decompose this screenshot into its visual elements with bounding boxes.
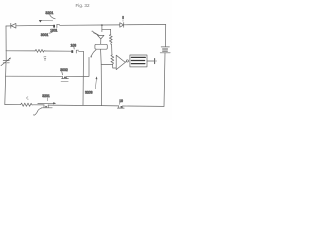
box overcharge detection circuit	[130, 55, 147, 67]
leader tick from 3202	[47, 98, 49, 101]
resistor R2a (row2 horizontal)	[35, 49, 46, 52]
contact blob 1001 (top switch)	[53, 25, 55, 28]
battery plate top	[161, 46, 169, 48]
wire bottom rail center	[48, 104, 118, 107]
box 3204 (empty rounded box)	[95, 44, 107, 49]
wire left rail upper	[5, 26, 7, 60]
terminal stub	[155, 60, 156, 62]
wire box bottom lead down to bottom rail	[100, 49, 103, 105]
bracket of contact 103	[76, 50, 78, 53]
label 5 above diode D2	[122, 16, 124, 19]
bracket of switch 1001	[57, 24, 60, 27]
transistor Q1 (base squiggle)	[92, 31, 95, 33]
box text line 2	[131, 60, 144, 62]
wire bottom rail right	[123, 105, 164, 107]
diode D1 (top-left, pointing left)	[10, 23, 12, 28]
resistor R4 (bottom horizontal)	[20, 103, 33, 106]
wire R3 to op-amp input	[113, 65, 117, 68]
wire right rail lower	[164, 53, 165, 106]
wire branch corner A to B	[102, 28, 111, 30]
wire row3 right + stub up	[67, 57, 89, 76]
current arrow	[38, 102, 54, 104]
switch contact (bottom mesa)	[43, 105, 45, 108]
svg-text:Fig. 32: Fig. 32	[76, 3, 90, 8]
wire top rail right of switch	[60, 24, 120, 26]
wire row3	[6, 75, 63, 77]
leader to box	[92, 50, 97, 56]
svg-text:3201: 3201	[42, 94, 50, 98]
node junction dot on top rail	[101, 24, 103, 26]
resistor R1 (vertical)	[109, 29, 112, 43]
battery label line 2	[163, 50, 168, 52]
wire line A (from top junction down)	[101, 25, 103, 32]
wire row2 left	[6, 50, 35, 52]
battery plate bottom	[160, 52, 170, 54]
variable capacitor plates (left rail)	[3, 60, 9, 62]
label above resistor R4	[27, 97, 29, 99]
leader from 103	[73, 47, 75, 49]
wire top rail mid	[16, 24, 53, 26]
wire right rail upper	[164, 25, 166, 47]
wire top rail far right	[124, 24, 166, 26]
svg-text:3001: 3001	[41, 33, 49, 37]
wire bottom rail left	[5, 104, 20, 106]
tiny leader label	[91, 56, 92, 58]
leader from 3002	[61, 72, 64, 75]
leader from 3001	[49, 30, 54, 33]
contact blob 103	[71, 50, 73, 53]
transistor Q1 emitter stroke	[94, 33, 98, 35]
wire box output	[147, 60, 154, 62]
box text line 3	[131, 63, 145, 65]
variable capacitor arrow	[1, 58, 10, 65]
wire row2 mid	[45, 50, 71, 52]
tiny label (below row2 resistor)	[44, 56, 46, 61]
wire left rail lower	[5, 63, 6, 105]
connector circle	[126, 60, 128, 62]
wire top horizontal rail	[6, 25, 16, 27]
cord tail	[33, 108, 41, 115]
wire op-amp output	[125, 60, 126, 63]
resistor R3 (vertical, at op-amp)	[111, 54, 114, 64]
wire between resistors	[111, 44, 112, 54]
diode D2 (top-right, pointing right)	[120, 23, 124, 28]
leader arrow up from 3203	[95, 79, 96, 89]
terminal bar	[154, 59, 156, 64]
switch 3002 (mesa contact)	[62, 76, 64, 78]
leader from 10	[118, 103, 121, 105]
op-amp U1	[116, 55, 125, 69]
battery label line 1	[163, 48, 168, 50]
leader line with arrowhead (left of 3201)	[42, 20, 53, 22]
transistor Q1 triangle	[98, 35, 105, 39]
leader from 3201	[50, 15, 56, 19]
svg-text:3203: 3203	[85, 91, 93, 95]
wire branch to op-amp input	[101, 64, 113, 66]
wire Q1 to box	[100, 39, 102, 44]
wire bottom rail mid	[33, 104, 44, 106]
svg-text:103: 103	[71, 43, 77, 47]
svg-text:3002: 3002	[60, 68, 68, 72]
wire row2 right + corner down	[79, 51, 84, 105]
box text line 1	[131, 56, 145, 58]
switch contact 10 (bottom right mesa)	[118, 106, 120, 108]
